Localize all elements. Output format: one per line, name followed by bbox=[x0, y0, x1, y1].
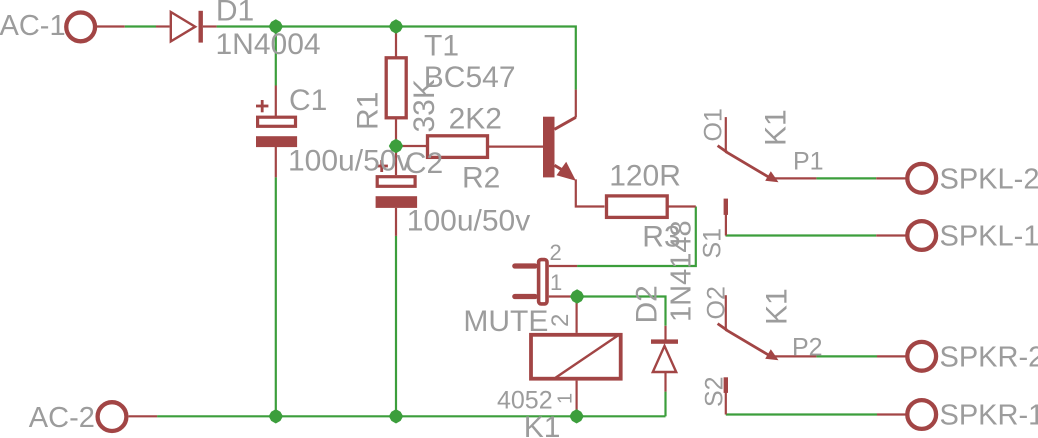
svg-text:D2: D2 bbox=[631, 285, 664, 323]
svg-text:C2: C2 bbox=[405, 147, 443, 180]
svg-text:O2: O2 bbox=[703, 286, 731, 319]
svg-text:O1: O1 bbox=[700, 108, 728, 141]
svg-text:100u/50v: 100u/50v bbox=[407, 204, 530, 237]
svg-text:2: 2 bbox=[547, 314, 574, 327]
svg-text:C1: C1 bbox=[289, 84, 327, 117]
svg-text:S2: S2 bbox=[701, 376, 729, 407]
svg-text:MUTE: MUTE bbox=[463, 305, 548, 338]
svg-text:T1: T1 bbox=[424, 30, 459, 63]
svg-text:S1: S1 bbox=[699, 228, 727, 259]
svg-text:P1: P1 bbox=[793, 148, 824, 176]
svg-text:K1: K1 bbox=[760, 109, 793, 146]
svg-text:P2: P2 bbox=[792, 334, 823, 362]
svg-text:SPKL-2: SPKL-2 bbox=[940, 163, 1038, 195]
svg-text:33K: 33K bbox=[408, 79, 441, 132]
svg-text:2K2: 2K2 bbox=[449, 103, 502, 136]
svg-text:100u/50v: 100u/50v bbox=[288, 145, 411, 178]
svg-text:2: 2 bbox=[550, 240, 562, 265]
svg-text:SPKL-1: SPKL-1 bbox=[940, 221, 1038, 253]
svg-text:R2: R2 bbox=[462, 161, 500, 194]
svg-text:SPKR-2: SPKR-2 bbox=[940, 341, 1038, 373]
svg-text:AC-1: AC-1 bbox=[0, 10, 66, 42]
svg-text:1N4148: 1N4148 bbox=[666, 220, 698, 322]
svg-text:SPKR-1: SPKR-1 bbox=[940, 400, 1038, 432]
svg-text:1: 1 bbox=[550, 270, 562, 295]
svg-text:K1: K1 bbox=[524, 411, 561, 438]
svg-text:120R: 120R bbox=[609, 159, 681, 192]
svg-text:1N4004: 1N4004 bbox=[216, 28, 321, 61]
svg-text:K1: K1 bbox=[761, 288, 794, 325]
svg-text:1: 1 bbox=[555, 393, 577, 404]
svg-text:D1: D1 bbox=[216, 0, 254, 28]
svg-text:AC-2: AC-2 bbox=[29, 402, 95, 434]
svg-text:R1: R1 bbox=[352, 92, 385, 130]
